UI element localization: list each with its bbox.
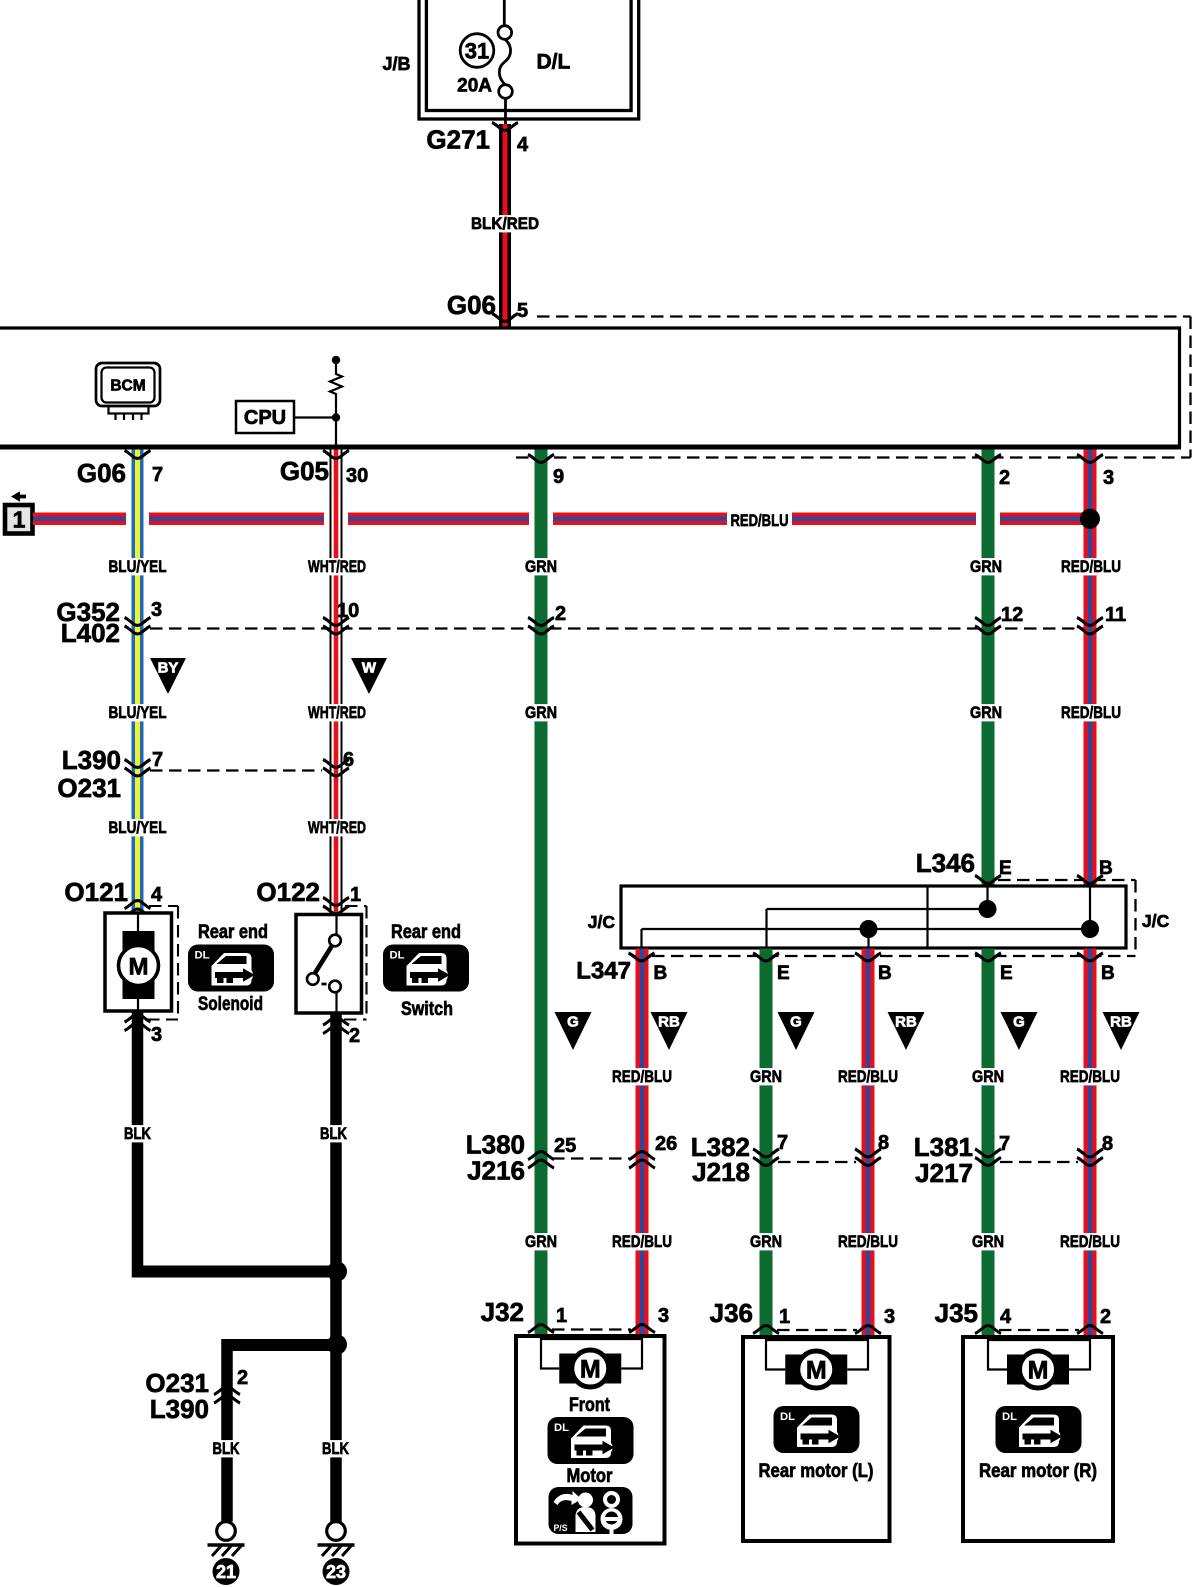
in-line connector G352/L402 — [56, 597, 1126, 648]
wire BLK (branch to ground 21) — [221, 1339, 233, 1522]
svg-text:L347: L347 — [576, 958, 631, 985]
door lock icon (rear motor L) — [774, 1406, 860, 1453]
wire GRN (L347-E to J35-4) — [982, 949, 995, 1338]
svg-text:GRN: GRN — [525, 557, 557, 576]
motor M (solenoid) — [119, 913, 159, 1011]
svg-text:3: 3 — [658, 1305, 669, 1327]
svg-text:4: 4 — [517, 134, 529, 156]
wire BLK (O121-3 down) — [132, 1011, 144, 1278]
motor M symbol — [988, 1337, 1090, 1388]
power door lock pictograph — [549, 1487, 633, 1535]
rear door lock motor (R) J35 box — [963, 1337, 1113, 1541]
wire GRN (pin 2 to L346-E) — [982, 450, 995, 887]
svg-text:G: G — [790, 1014, 802, 1031]
motor M symbol — [766, 1337, 868, 1388]
door lock icon (solenoid) — [188, 945, 274, 992]
svg-text:G05: G05 — [280, 456, 329, 486]
svg-text:B: B — [1101, 963, 1115, 984]
connector dashed boundary (G06/G05 block) — [516, 317, 1191, 458]
svg-text:7: 7 — [777, 1132, 788, 1154]
svg-text:20A: 20A — [457, 76, 492, 97]
pull-up resistor — [330, 360, 342, 447]
svg-text:3: 3 — [884, 1306, 895, 1328]
svg-text:1: 1 — [13, 507, 26, 533]
wire color labels BLK — [120, 1124, 352, 1143]
svg-text:BLU/YEL: BLU/YEL — [109, 818, 167, 837]
svg-text:BLK: BLK — [213, 1439, 241, 1458]
ground 23 — [318, 1522, 355, 1585]
connector J35 pins 4,2 — [935, 1298, 1112, 1334]
svg-text:GRN: GRN — [970, 557, 1002, 576]
wire color labels — [104, 818, 371, 837]
connector G271 pin 4 — [426, 123, 529, 157]
svg-text:7: 7 — [152, 749, 163, 771]
svg-text:30: 30 — [346, 465, 368, 487]
connector G06 pin 5 — [447, 290, 528, 322]
node: bus joins RED/BLU column — [1080, 509, 1100, 529]
ground 21 — [208, 1522, 245, 1585]
junction connector L347 (bottom pins) — [576, 953, 1114, 985]
node: BLK junction — [327, 1262, 347, 1282]
svg-text:BLK/RED: BLK/RED — [471, 214, 539, 233]
svg-text:RED/BLU: RED/BLU — [1061, 557, 1121, 576]
BCM pin 9 — [528, 455, 564, 489]
svg-text:GRN: GRN — [525, 1232, 557, 1251]
junction box J/B (double border) — [419, 0, 639, 119]
J/C internal divider — [926, 886, 928, 948]
svg-text:RED/BLU: RED/BLU — [612, 1232, 672, 1251]
connector J32 pins 1,3 — [481, 1297, 670, 1333]
svg-text:5: 5 — [517, 300, 528, 322]
svg-text:2: 2 — [999, 467, 1010, 489]
connector O121 pin 3 — [125, 1014, 163, 1046]
wire color labels — [521, 1232, 1125, 1251]
svg-text:Motor: Motor — [567, 1466, 614, 1487]
wire RED/BLU (L347-B to J36-3) — [862, 949, 875, 1338]
svg-text:9: 9 — [553, 466, 564, 488]
BCM icon — [96, 363, 160, 420]
svg-text:B: B — [1099, 858, 1113, 879]
harness code triangle W — [351, 658, 387, 694]
BCM pin 3 — [1077, 455, 1114, 490]
page link box 1 — [5, 505, 33, 534]
svg-text:E: E — [777, 963, 790, 984]
svg-text:BY: BY — [158, 660, 179, 677]
svg-text:RED/BLU: RED/BLU — [838, 1067, 898, 1086]
svg-text:G: G — [567, 1014, 579, 1031]
svg-text:M: M — [806, 1357, 827, 1385]
svg-text:RB: RB — [658, 1014, 680, 1031]
svg-text:J216: J216 — [467, 1156, 525, 1186]
svg-text:G06: G06 — [77, 458, 126, 488]
svg-text:Rear motor (R): Rear motor (R) — [979, 1461, 1097, 1482]
svg-text:J32: J32 — [481, 1297, 524, 1327]
svg-text:Rear motor (L): Rear motor (L) — [759, 1461, 874, 1482]
harness code triangle RB — [888, 1012, 925, 1050]
wire BLK branch to O231 — [222, 1339, 338, 1351]
svg-text:BLK: BLK — [322, 1439, 350, 1458]
svg-text:4: 4 — [1000, 1306, 1012, 1328]
connector O121 pin 4 — [64, 877, 163, 917]
svg-text:3: 3 — [151, 599, 162, 621]
svg-text:M: M — [580, 1356, 601, 1384]
svg-text:2: 2 — [555, 603, 566, 625]
wire color labels — [608, 1067, 1125, 1086]
svg-text:E: E — [999, 858, 1012, 879]
wire BLK (O122-2 to ground 23) — [330, 1013, 342, 1522]
svg-text:B: B — [878, 963, 892, 984]
BCM pin 2 — [975, 455, 1010, 490]
svg-text:7: 7 — [999, 1133, 1010, 1155]
wire BLU/YEL (G06-7 to O121) — [132, 450, 144, 914]
svg-text:J35: J35 — [935, 1298, 978, 1328]
door lock icon (rear motor R) — [996, 1406, 1082, 1453]
harness code triangle RB — [651, 1012, 688, 1050]
svg-text:J/B: J/B — [382, 54, 410, 74]
node: BLK branch junction — [327, 1335, 347, 1355]
svg-text:Solenoid: Solenoid — [198, 994, 263, 1015]
svg-text:WHT/RED: WHT/RED — [308, 818, 366, 837]
svg-text:RED/BLU: RED/BLU — [731, 511, 789, 530]
harness code triangle G — [555, 1012, 592, 1050]
J/C internal wires — [642, 886, 1091, 948]
svg-text:1: 1 — [779, 1306, 790, 1328]
svg-text:12: 12 — [1001, 604, 1023, 626]
svg-text:Front: Front — [569, 1395, 611, 1416]
svg-text:4: 4 — [151, 884, 163, 906]
in-line connector L381/J217 pins 7,8 — [914, 1132, 1113, 1188]
door lock icon (front motor) — [548, 1417, 634, 1464]
svg-text:B: B — [654, 963, 668, 984]
wire color labels — [104, 557, 1126, 576]
svg-text:M: M — [129, 954, 149, 981]
svg-text:Rear end: Rear end — [198, 922, 268, 943]
rear door lock motor (L) J36 box — [743, 1337, 890, 1541]
wire GRN (pin 9 to J32-1) — [535, 450, 548, 1337]
svg-text:W: W — [362, 660, 377, 677]
BCM module box — [0, 328, 1181, 447]
harness code triangle G — [778, 1012, 815, 1050]
svg-text:L402: L402 — [61, 618, 120, 648]
harness code triangle BY — [150, 658, 186, 694]
in-line connector L382/J218 pins 7,8 — [691, 1132, 889, 1187]
svg-text:E: E — [1000, 963, 1013, 984]
svg-text:G271: G271 — [426, 125, 490, 155]
wire color label BLK/RED — [467, 215, 544, 232]
harness code triangle G — [1001, 1012, 1038, 1050]
wire RED/BLU (L347-B to J32-3) — [636, 949, 649, 1337]
svg-text:L390: L390 — [150, 1394, 209, 1424]
svg-text:8: 8 — [1102, 1133, 1113, 1155]
svg-text:J218: J218 — [692, 1157, 750, 1187]
CPU box — [236, 401, 294, 433]
svg-text:2: 2 — [237, 1367, 248, 1389]
wire color labels — [104, 703, 1126, 722]
fuse number 31 (circled) — [460, 34, 494, 68]
svg-text:O121: O121 — [64, 877, 128, 907]
svg-text:L346: L346 — [916, 848, 975, 878]
svg-text:J217: J217 — [915, 1158, 973, 1188]
svg-text:L390: L390 — [62, 745, 121, 775]
svg-text:RED/BLU: RED/BLU — [838, 1232, 898, 1251]
svg-text:RED/BLU: RED/BLU — [1060, 1067, 1120, 1086]
svg-text:Switch: Switch — [401, 999, 453, 1020]
svg-text:BLU/YEL: BLU/YEL — [109, 703, 167, 722]
solenoid O121 dashed connector boundary — [147, 906, 178, 1020]
svg-text:31: 31 — [465, 39, 489, 64]
harness code triangle RB — [1103, 1012, 1140, 1050]
svg-text:RB: RB — [1110, 1014, 1132, 1031]
fuse 31 (20A) symbol — [498, 0, 512, 125]
svg-text:GRN: GRN — [972, 1067, 1004, 1086]
svg-text:11: 11 — [1105, 604, 1126, 626]
junction connector L346 (top pins E, B) — [916, 848, 1113, 883]
svg-text:G06: G06 — [447, 290, 496, 320]
svg-text:J36: J36 — [710, 1298, 753, 1328]
page link arrow — [11, 491, 26, 501]
svg-text:J/C: J/C — [1142, 911, 1170, 931]
node (CPU junction) — [332, 413, 340, 421]
front door lock motor J32 box — [516, 1336, 665, 1544]
svg-text:10: 10 — [337, 600, 359, 622]
svg-text:GRN: GRN — [970, 703, 1002, 722]
wire RED/BLU horizontal bus — [33, 513, 1090, 526]
svg-text:BCM: BCM — [110, 378, 145, 395]
svg-text:21: 21 — [216, 1562, 236, 1582]
svg-text:26: 26 — [655, 1133, 677, 1155]
wire WHT/RED (G05-30 to O122) — [330, 450, 343, 916]
in-line connector O231/L390 pin 2 — [145, 1367, 248, 1424]
svg-text:3: 3 — [151, 1024, 162, 1046]
svg-text:CPU: CPU — [244, 407, 286, 429]
svg-text:GRN: GRN — [750, 1067, 782, 1086]
svg-text:BLK: BLK — [124, 1124, 152, 1143]
wire RED/BLU (L347-B to J35-2) — [1084, 949, 1097, 1338]
motor M symbol — [541, 1336, 642, 1387]
svg-text:M: M — [1028, 1357, 1049, 1385]
svg-text:WHT/RED: WHT/RED — [308, 703, 366, 722]
svg-text:RED/BLU: RED/BLU — [612, 1067, 672, 1086]
svg-text:GRN: GRN — [525, 703, 557, 722]
svg-text:D/L: D/L — [537, 51, 571, 74]
switch O122 dashed connector boundary — [344, 906, 367, 1020]
node (top of resistor) — [332, 356, 340, 364]
connector O122 pin 2 — [323, 1017, 360, 1047]
svg-text:Rear end: Rear end — [391, 922, 461, 943]
svg-text:6: 6 — [343, 749, 354, 771]
svg-text:GRN: GRN — [972, 1232, 1004, 1251]
svg-text:25: 25 — [554, 1135, 576, 1157]
svg-text:G: G — [1013, 1014, 1025, 1031]
svg-text:23: 23 — [326, 1562, 346, 1582]
svg-text:BLU/YEL: BLU/YEL — [109, 557, 167, 576]
wire CPU to node — [294, 416, 336, 418]
svg-text:BLK: BLK — [320, 1124, 348, 1143]
svg-text:RB: RB — [895, 1014, 917, 1031]
svg-text:2: 2 — [349, 1025, 360, 1047]
svg-text:2: 2 — [1100, 1306, 1111, 1328]
svg-text:O122: O122 — [256, 877, 320, 907]
connector O122 pin 1 — [256, 877, 361, 914]
J/C box — [621, 886, 1126, 948]
svg-text:7: 7 — [152, 464, 163, 486]
wire GRN (L347-E to J36-1) — [760, 949, 773, 1338]
svg-text:8: 8 — [878, 1132, 889, 1154]
wire RED/BLU (pin 3 to L346-B) — [1084, 450, 1097, 887]
svg-text:WHT/RED: WHT/RED — [308, 557, 366, 576]
wire BLK/RED (fuse output) — [499, 124, 511, 328]
in-line connector L380/J216 pins 25,26 — [466, 1130, 678, 1186]
connector G06 pin 7 — [77, 451, 163, 489]
solenoid O121 box — [105, 913, 172, 1011]
svg-text:1: 1 — [556, 1305, 567, 1327]
connector J36 pins 1,3 — [710, 1298, 896, 1334]
svg-text:RED/BLU: RED/BLU — [1061, 703, 1121, 722]
svg-text:1: 1 — [350, 884, 361, 906]
svg-text:GRN: GRN — [750, 1232, 782, 1251]
connector G05 pin 30 — [280, 451, 368, 488]
wire BLK elbow joining O122 branch — [132, 1266, 337, 1278]
svg-text:J/C: J/C — [588, 912, 616, 932]
svg-text:RED/BLU: RED/BLU — [1060, 1232, 1120, 1251]
switch symbol — [307, 915, 341, 1014]
svg-text:3: 3 — [1103, 467, 1114, 489]
switch O122 box — [296, 915, 362, 1014]
svg-text:O231: O231 — [57, 773, 121, 803]
in-line connector L390/O231 — [57, 745, 354, 803]
wire color labels BLK — [208, 1439, 354, 1458]
in-line connector dashed lines — [150, 629, 1136, 1331]
J/C internal junction nodes — [979, 900, 997, 918]
door lock icon (switch) — [383, 945, 469, 992]
